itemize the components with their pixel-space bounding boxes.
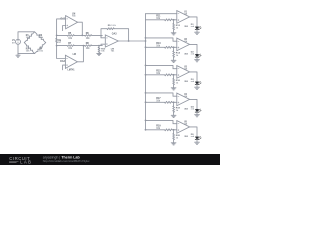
svg-text:LM: LM [184, 124, 187, 126]
voltage source V1 [16, 39, 21, 44]
resistor R14 cell2 to ground [173, 47, 175, 51]
op-amp U4 comparator [177, 93, 190, 106]
wire OA3 feedback right leg [114, 29, 128, 41]
node OA1 feedback junction [81, 35, 83, 37]
wire bridge bottom vertex to ground rail [18, 53, 35, 55]
svg-text:OA3: OA3 [112, 33, 117, 36]
LED D5 [195, 137, 199, 140]
ground cell4 divider [171, 114, 176, 116]
resistor R15 cell3 series [165, 74, 173, 76]
wire cell2 reference feed [146, 38, 177, 41]
node cell1 divider junction [173, 19, 175, 21]
node bus tap cell4 upper [145, 92, 147, 94]
resistor R3 bottom-left bridge arm [24, 43, 34, 54]
wire OA3 output to comparator bus [118, 40, 146, 42]
wire OA3 feedback left leg [101, 29, 107, 38]
resistor R4 bottom-right bridge arm [35, 43, 46, 54]
resistor R20 cell5 to ground [173, 130, 175, 134]
ground cell2 divider [171, 59, 176, 61]
svg-text:LM: LM [184, 14, 187, 16]
resistor R18 cell4 to ground [173, 102, 175, 106]
resistor R19 cell5 series [165, 129, 173, 131]
wire U4 output to LED [190, 99, 197, 109]
resistor R5 top rail left [67, 35, 74, 37]
wire top rail into OA3 inverting input [101, 35, 105, 37]
wire U5 output to LED [190, 127, 197, 137]
wire comparator input bus [145, 14, 147, 130]
node cell2 divider junction [173, 46, 175, 48]
watermark bar [0, 154, 220, 165]
ground cell5 divider [171, 142, 176, 144]
wire cell4 input rail [146, 101, 165, 103]
resistor R1 top-left bridge arm [24, 32, 34, 43]
node cell3 divider junction [173, 74, 175, 76]
wire cell5 input rail [146, 129, 165, 131]
op-amp OA3 [105, 35, 118, 47]
wire OA3 noninverting divider stub [98, 46, 100, 47]
ground cell1 LED [196, 30, 198, 33]
op-amp U2 comparator [177, 38, 190, 51]
wire cell3 reference feed [146, 65, 177, 68]
node OA2 feedback junction [83, 45, 85, 47]
wire OA1 output to top rail [78, 22, 83, 35]
op-amp OA1 [66, 16, 78, 29]
wire bottom rail into OA3 noninverting input [101, 44, 105, 45]
node bus tap cell3 upper [145, 65, 147, 67]
wire OA2 noninverting stub [63, 65, 66, 70]
node cell5 divider junction [173, 129, 175, 131]
resistor R12 cell1 to ground [173, 20, 175, 24]
node bus tap cell2 [145, 46, 147, 48]
ground cell5 LED [196, 140, 198, 143]
ground below OA3 [98, 52, 100, 55]
node bus input junction [145, 40, 147, 42]
node bus tap cell4 [145, 101, 147, 103]
node bus tap cell5 [145, 129, 147, 131]
svg-text:LAB: LAB [20, 160, 32, 165]
svg-text:OA2: OA2 [60, 60, 66, 63]
ground cell3 LED [196, 85, 198, 88]
resistor R8 bottom rail right [85, 45, 92, 47]
resistor R9 feedback [107, 28, 114, 30]
wire cell2 input rail [146, 46, 165, 48]
svg-text:LM741: LM741 [68, 69, 76, 72]
node B bottom rail left [56, 45, 58, 47]
resistor R13 cell2 series [165, 46, 173, 48]
resistor Rg gain resistor [56, 35, 58, 38]
wire OA1 noninverting stub [63, 26, 66, 31]
op-amp U5 comparator [177, 121, 190, 134]
node divider junction [98, 45, 100, 47]
node bus tap cell3 [145, 74, 147, 76]
wire OA2 inverting input loop [57, 46, 66, 59]
wire cell1 input rail [146, 19, 165, 21]
wire V1 bottom to ground rail [17, 44, 19, 53]
LED D1 [195, 27, 199, 30]
svg-text:LM: LM [184, 96, 187, 98]
node bus tap cell2 upper [145, 37, 147, 39]
wire V1 top to bridge top vertex [18, 32, 35, 40]
LED D2 [195, 54, 199, 57]
resistor R11 cell1 series [165, 19, 173, 21]
ground cell3 divider [171, 87, 176, 89]
node OA3 output junction [128, 40, 130, 42]
wire top rail [57, 34, 68, 36]
node cell4 divider junction [173, 101, 175, 103]
svg-text:LM: LM [184, 69, 187, 71]
op-amp U1 comparator [177, 11, 190, 24]
resistor R17 cell4 series [165, 101, 173, 103]
node A top rail left [56, 35, 58, 37]
wire cell1 reference feed [146, 13, 177, 15]
resistor R2 top-right bridge arm [35, 32, 46, 43]
resistor R10 to ground [98, 47, 100, 53]
wire cell4 reference feed [146, 93, 177, 96]
svg-text:LM: LM [184, 41, 187, 43]
wire U3 output to LED [190, 72, 197, 82]
ground cell2 LED [196, 57, 198, 60]
LED D4 [195, 109, 199, 112]
wire cell3 input rail [146, 74, 165, 76]
wire OA1 inverting input loop [57, 19, 66, 36]
resistor R6 top rail right [85, 35, 92, 37]
ground cell1 divider [171, 32, 176, 34]
wire bottom rail [57, 45, 68, 47]
op-amp U3 comparator [177, 66, 190, 79]
ground cell4 LED [196, 112, 198, 115]
wire U2 output to LED [190, 44, 197, 54]
LED D3 [195, 82, 199, 85]
svg-text:LM: LM [73, 54, 76, 56]
op-amp OA2 [65, 55, 77, 68]
wire OA2 output to bottom rail [77, 46, 83, 62]
svg-text:http://circuitlab.com/c/ar95d7: http://circuitlab.com/c/ar95d7v72ykx [43, 159, 90, 163]
resistor R7 bottom rail left [67, 45, 74, 47]
node bus tap cell5 upper [145, 120, 147, 122]
ground of bridge [17, 54, 19, 56]
wire cell5 reference feed [146, 120, 177, 123]
resistor R16 cell3 to ground [173, 75, 175, 79]
wire U1 output to LED [190, 17, 197, 27]
